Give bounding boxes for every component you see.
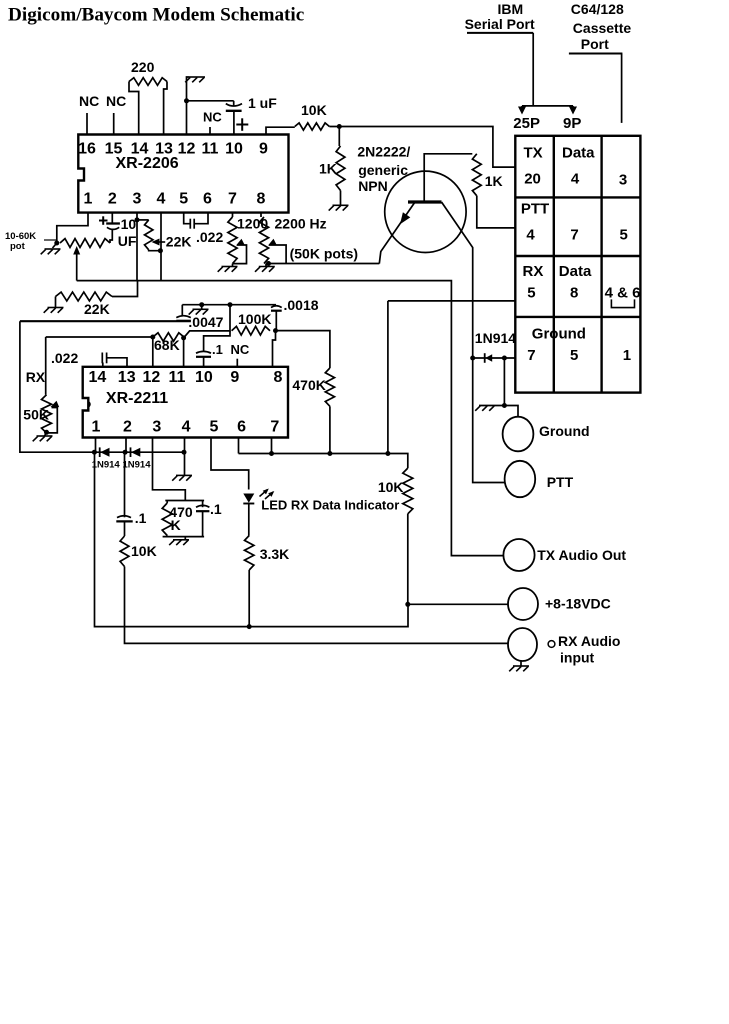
svg-text:RX Audio: RX Audio bbox=[558, 633, 620, 649]
svg-text:11: 11 bbox=[168, 369, 185, 386]
svg-text:C64/128: C64/128 bbox=[571, 1, 624, 17]
svg-text:Ground: Ground bbox=[532, 326, 586, 343]
svg-text:7: 7 bbox=[570, 227, 578, 244]
svg-text:22K: 22K bbox=[166, 234, 192, 250]
svg-text:generic: generic bbox=[358, 162, 408, 178]
svg-text:PTT: PTT bbox=[547, 474, 574, 490]
svg-text:+8-18VDC: +8-18VDC bbox=[545, 596, 611, 612]
svg-text:1N914: 1N914 bbox=[92, 460, 121, 471]
svg-text:K: K bbox=[171, 517, 181, 533]
svg-text:2N2222/: 2N2222/ bbox=[357, 144, 410, 160]
svg-text:10: 10 bbox=[195, 369, 213, 386]
svg-text:Serial Port: Serial Port bbox=[465, 16, 535, 32]
svg-text:UF: UF bbox=[118, 233, 137, 249]
svg-text:1N914: 1N914 bbox=[123, 460, 152, 471]
svg-text:8: 8 bbox=[570, 285, 578, 302]
svg-text:.022: .022 bbox=[196, 229, 223, 245]
svg-text:4: 4 bbox=[571, 171, 580, 188]
svg-text:5: 5 bbox=[620, 227, 628, 244]
svg-text:.1: .1 bbox=[135, 510, 147, 526]
svg-text:NC: NC bbox=[79, 93, 99, 109]
svg-text:7: 7 bbox=[270, 419, 279, 436]
svg-text:2: 2 bbox=[108, 190, 117, 207]
svg-text:14: 14 bbox=[131, 141, 149, 158]
svg-text:1K: 1K bbox=[319, 161, 337, 177]
svg-text:TX: TX bbox=[524, 145, 543, 162]
svg-text:.1: .1 bbox=[210, 501, 222, 517]
svg-text:16: 16 bbox=[78, 141, 96, 158]
svg-text:Data: Data bbox=[559, 263, 592, 280]
svg-text:5: 5 bbox=[179, 190, 188, 207]
svg-text:1: 1 bbox=[84, 190, 93, 207]
svg-text:13: 13 bbox=[118, 369, 136, 386]
svg-text:RX: RX bbox=[26, 369, 46, 385]
svg-text:3: 3 bbox=[152, 419, 161, 436]
svg-text:9: 9 bbox=[230, 369, 239, 386]
svg-text:50K: 50K bbox=[23, 407, 49, 423]
svg-text:NPN: NPN bbox=[358, 178, 388, 194]
svg-text:220: 220 bbox=[131, 59, 155, 75]
svg-text:5: 5 bbox=[209, 419, 218, 436]
svg-text:22K: 22K bbox=[84, 301, 110, 317]
svg-text:.1: .1 bbox=[212, 342, 223, 357]
svg-text:10: 10 bbox=[121, 216, 137, 232]
svg-text:XR-2206: XR-2206 bbox=[116, 155, 179, 172]
svg-text:Cassette: Cassette bbox=[573, 20, 632, 36]
svg-text:pot: pot bbox=[10, 241, 26, 252]
svg-text:input: input bbox=[560, 650, 595, 666]
svg-text:12: 12 bbox=[178, 141, 196, 158]
svg-text:RX: RX bbox=[523, 263, 544, 280]
svg-text:9P: 9P bbox=[563, 115, 581, 132]
svg-text:11: 11 bbox=[202, 141, 219, 158]
svg-text:15: 15 bbox=[105, 141, 123, 158]
svg-text:3: 3 bbox=[133, 190, 142, 207]
svg-text:NC: NC bbox=[203, 110, 222, 125]
svg-text:.0047: .0047 bbox=[188, 314, 223, 330]
svg-text:470K: 470K bbox=[292, 377, 325, 393]
svg-text:9: 9 bbox=[259, 141, 268, 158]
svg-text:20: 20 bbox=[524, 171, 541, 188]
svg-text:12: 12 bbox=[143, 369, 161, 386]
svg-text:14: 14 bbox=[89, 369, 107, 386]
svg-text:.0018: .0018 bbox=[284, 297, 319, 313]
svg-text:7: 7 bbox=[527, 347, 535, 364]
svg-text:1N914: 1N914 bbox=[475, 330, 516, 346]
svg-text:.022: .022 bbox=[51, 350, 78, 366]
svg-text:Ground: Ground bbox=[539, 423, 590, 439]
svg-text:1: 1 bbox=[91, 419, 100, 436]
svg-text:10: 10 bbox=[225, 141, 243, 158]
svg-text:XR-2211: XR-2211 bbox=[106, 390, 168, 407]
svg-text:3.3K: 3.3K bbox=[260, 546, 290, 562]
svg-text:4: 4 bbox=[157, 190, 166, 207]
svg-text:13: 13 bbox=[155, 141, 173, 158]
svg-text:Digicom/Baycom Modem Schematic: Digicom/Baycom Modem Schematic bbox=[8, 5, 305, 26]
svg-text:TX Audio Out: TX Audio Out bbox=[537, 547, 626, 563]
svg-text:1 uF: 1 uF bbox=[248, 95, 277, 111]
svg-text:IBM: IBM bbox=[498, 1, 524, 17]
svg-text:4: 4 bbox=[526, 227, 535, 244]
svg-text:LED RX Data Indicator: LED RX Data Indicator bbox=[261, 498, 399, 513]
svg-text:10K: 10K bbox=[378, 479, 404, 495]
svg-text:2200 Hz: 2200 Hz bbox=[275, 216, 327, 232]
svg-text:PTT: PTT bbox=[521, 201, 549, 218]
svg-text:5: 5 bbox=[570, 347, 578, 364]
svg-text:8: 8 bbox=[274, 369, 283, 386]
svg-text:Data: Data bbox=[562, 145, 595, 162]
svg-text:7: 7 bbox=[228, 190, 237, 207]
svg-text:5: 5 bbox=[527, 285, 535, 302]
svg-text:6: 6 bbox=[237, 419, 246, 436]
svg-text:25P: 25P bbox=[513, 115, 540, 132]
svg-text:1K: 1K bbox=[485, 173, 503, 189]
svg-text:4: 4 bbox=[182, 419, 191, 436]
svg-text:8: 8 bbox=[257, 190, 266, 207]
svg-text:1: 1 bbox=[623, 347, 631, 364]
svg-text:NC: NC bbox=[106, 93, 126, 109]
svg-text:(50K pots): (50K pots) bbox=[290, 246, 358, 262]
svg-text:2: 2 bbox=[123, 419, 132, 436]
svg-text:4 & 6: 4 & 6 bbox=[605, 285, 641, 302]
svg-text:3: 3 bbox=[619, 172, 627, 189]
svg-text:68K: 68K bbox=[154, 337, 180, 353]
svg-text:10K: 10K bbox=[301, 102, 327, 118]
svg-text:100K: 100K bbox=[238, 311, 271, 327]
svg-text:6: 6 bbox=[203, 190, 212, 207]
svg-text:Port: Port bbox=[581, 36, 609, 52]
svg-text:NC: NC bbox=[231, 342, 250, 357]
svg-text:10K: 10K bbox=[131, 543, 157, 559]
